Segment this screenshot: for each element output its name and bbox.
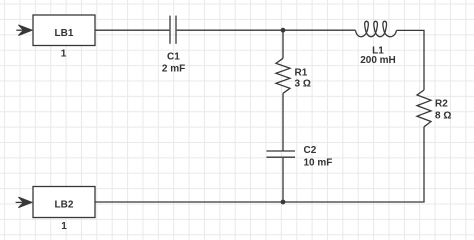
wire L1 to R2 <box>397 30 425 90</box>
wire node A to R1 <box>282 30 284 58</box>
svg-text:LB2: LB2 <box>55 200 74 211</box>
svg-text:1: 1 <box>61 221 67 232</box>
wire R2 to bottom rail <box>95 127 424 202</box>
svg-text:C1: C1 <box>167 52 180 63</box>
capacitor C1 <box>170 16 176 44</box>
svg-text:200 mH: 200 mH <box>360 55 396 66</box>
wire C2 to node B <box>282 158 284 202</box>
svg-text:8 Ω: 8 Ω <box>435 110 451 121</box>
block LB2 <box>33 187 95 218</box>
svg-text:R1: R1 <box>295 67 308 78</box>
resistor R2 <box>417 90 431 127</box>
input arrow to LB2 <box>16 197 32 207</box>
capacitor C2 <box>267 151 296 157</box>
resistor R1 <box>276 58 290 93</box>
block LB1 <box>33 15 95 46</box>
svg-text:C2: C2 <box>304 145 317 156</box>
wire R1 to C2 <box>282 93 284 150</box>
svg-text:2 mF: 2 mF <box>162 63 185 74</box>
wire C1 to L1 through node A <box>177 29 356 31</box>
inductor L1 <box>356 21 397 36</box>
node B junction dot <box>281 200 286 205</box>
svg-text:10 mF: 10 mF <box>304 158 333 169</box>
svg-text:LB1: LB1 <box>55 28 74 39</box>
input arrow to LB1 <box>16 25 32 35</box>
node A junction dot <box>281 28 286 33</box>
svg-text:R2: R2 <box>435 98 448 109</box>
wire LB1 to C1 <box>95 29 169 31</box>
svg-text:3 Ω: 3 Ω <box>295 79 311 90</box>
svg-text:1: 1 <box>61 49 67 60</box>
